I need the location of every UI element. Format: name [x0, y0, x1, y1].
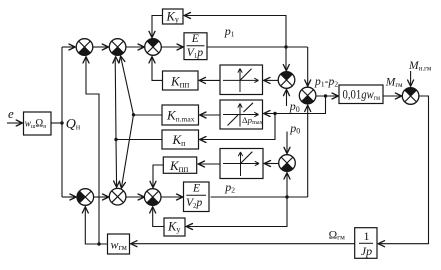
wire: sat1 to Kpp [200, 79, 221, 81]
svg-text:E: E [191, 33, 199, 45]
node dot p1-p2 branch [324, 94, 327, 97]
summing junction JD (bottom filled) [279, 155, 296, 172]
wire: Kpp output up into J3 [152, 57, 163, 80]
node dot p2 branch [285, 195, 288, 198]
wire: p2 riser up into JB [307, 106, 309, 198]
block Ky top [163, 9, 184, 24]
wire: 0,01gw output to JC [383, 95, 401, 97]
wire: Kp output to vertical rail [116, 139, 162, 141]
wire: diagonal Kpmax dot up to J2 [121, 56, 134, 115]
block sat3 (limiter) [220, 149, 263, 179]
wire: 1/Jp output feedback line to w_gm [131, 243, 355, 245]
block Kpmax [162, 105, 199, 125]
svg-text:e: e [8, 106, 14, 121]
wire: w_gm riser up to J1 [86, 57, 99, 244]
node Mngm stub into JC [410, 71, 412, 86]
wire: left rail x=62 from top row to bottom row [61, 47, 63, 197]
wire: Kpp2 output down into JE [153, 165, 163, 187]
block w_gm [108, 234, 130, 254]
wire: sat3 to Kpp2 [199, 163, 221, 165]
node dot w_gm branch [97, 242, 100, 245]
wire: JC output right and down to 1/Jp [379, 96, 429, 244]
block Kpp2 [163, 157, 196, 173]
svg-text:E: E [192, 183, 200, 195]
summing junction J3 (top filled) [145, 39, 162, 56]
block sat1 (limiter) [220, 65, 263, 95]
block U1 E/V1p [184, 33, 207, 60]
summing junction J2 (bottom filled) [109, 39, 126, 56]
wire: p1 line from E/V1p to riser corner [207, 46, 308, 48]
node dot Kp fan [114, 138, 117, 141]
summing junction J1 (bottom filled) [76, 39, 93, 56]
wire: w_gm output left and up into JF [85, 207, 107, 244]
wire: p1 up and left to Ky top [185, 16, 287, 48]
node dot p1 branch [284, 45, 287, 48]
wire: JA output to sat1 [264, 79, 278, 81]
node dot Kp feed [273, 112, 276, 115]
wire: J3 to E/V1p [161, 46, 182, 48]
wire: Ky output down into J3 [152, 16, 163, 38]
wire: J2 to J3 [126, 46, 144, 48]
svg-text:Jp: Jp [361, 244, 372, 258]
block Ky2 [164, 218, 185, 236]
wire: J1 to J2 [93, 46, 108, 48]
wire: left rail corner into JF [62, 196, 76, 198]
summing junction JF (left filled) [77, 189, 94, 206]
block Kp [162, 130, 199, 149]
block sat2 (dead zone, Δp_max) [220, 100, 264, 129]
wire: p1 riser down into JA [285, 47, 287, 71]
summing junction JB (bottom filled) [299, 87, 316, 104]
wire: JF to JG [94, 196, 108, 198]
wire: Ky2 output up into JE [153, 207, 164, 227]
node Qn dot [60, 121, 63, 124]
wire: p2 branch up into JD [286, 173, 288, 197]
wire: p1 second riser into JB [307, 47, 309, 86]
block U2 E/V2p [184, 182, 210, 212]
wire: corner into J1 [62, 46, 75, 48]
summing junction JG (no fill) [109, 188, 126, 205]
svg-text:1: 1 [364, 229, 370, 243]
wire: p2 line from E/V2p to riser [211, 196, 308, 198]
wire: sat2 to Kpmax [200, 114, 220, 116]
block 1/Jp [355, 228, 377, 259]
wire: Kp rail up into J2 [114, 57, 117, 140]
summing junction JE (bottom filled) [144, 189, 161, 206]
wire: JD output to sat3 [265, 163, 279, 165]
wire: e input arrow [7, 122, 22, 124]
wire: Kpmax output to fan dot [134, 114, 163, 116]
wire: p2 branch down to Ky2 [187, 197, 288, 227]
wire: JG to JE [126, 196, 144, 198]
wire: wsh output to rail x62 with node dot [51, 122, 62, 124]
wire: Kp rail down into JG [115, 140, 118, 188]
wire: diagonal Kpmax dot down to JG [121, 115, 133, 188]
block Kpp top [163, 71, 199, 90]
summing junction JC (top filled) [402, 88, 419, 105]
wire: JB output to 0,01gw box [316, 95, 338, 97]
block 0,01gw_gm [339, 85, 383, 104]
wire: p1-p2 branch down to sat2 feed line [264, 96, 326, 114]
summing junction JA (top filled) [278, 72, 295, 89]
node p0 upper stub into JA [286, 90, 288, 106]
node dot Kpmax fan [132, 113, 135, 116]
node p0 lower stub into JD [286, 132, 288, 154]
wire: branch down to Kp [200, 114, 275, 140]
block wshOmega (w_ш Ω_н) [24, 112, 52, 135]
wire: JE to E/V2p [161, 196, 182, 198]
